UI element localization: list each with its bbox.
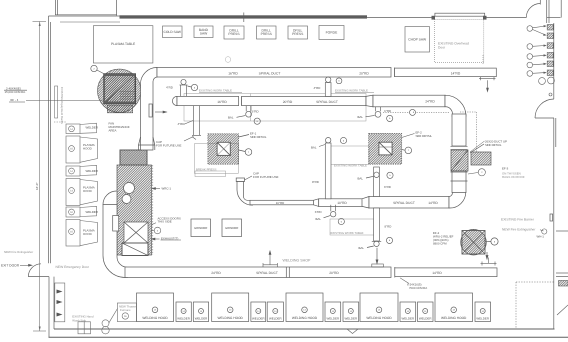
svg-text:4"RD: 4"RD [314,86,321,90]
svg-text:EXISTING WORK TABLE: EXISTING WORK TABLE [331,231,364,235]
svg-text:8800 CFM: 8800 CFM [433,241,447,245]
svg-text:14"RD: 14"RD [432,271,442,275]
svg-text:20"RD: 20"RD [359,71,369,75]
svg-text:WELDING HOOD: WELDING HOOD [142,316,168,320]
svg-text:Door: Door [438,46,446,50]
svg-text:BAL: BAL [358,176,364,180]
svg-text:18'-0": 18'-0" [35,183,39,190]
svg-text:15,000 CFM EA.: 15,000 CFM EA. [5,90,27,94]
svg-text:EF-3: EF-3 [502,166,509,170]
svg-text:SEE DETAIL: SEE DETAIL [416,134,433,138]
svg-text:24"RD: 24"RD [425,100,435,104]
svg-text:EXISTING Equipment Racks: EXISTING Equipment Racks [60,87,64,125]
svg-text:BAL: BAL [316,217,322,221]
svg-text:CHOP SAW: CHOP SAW [408,38,427,42]
svg-text:WELDER: WELDER [252,317,265,321]
svg-text:6"RD: 6"RD [252,110,259,114]
svg-text:SPIRAL DUCT: SPIRAL DUCT [316,100,338,104]
svg-text:BAL: BAL [358,115,364,119]
svg-text:BAL: BAL [359,246,365,250]
svg-text:6"RD: 6"RD [315,210,322,214]
svg-text:WELDER: WELDER [86,210,98,214]
svg-text:WRC-1: WRC-1 [162,187,172,191]
svg-text:SPIRAL DUCT: SPIRAL DUCT [256,271,278,275]
svg-text:NEW Fire Extinguisher: NEW Fire Extinguisher [4,250,33,254]
svg-text:24"RD: 24"RD [211,271,221,275]
svg-text:SPIRAL DUCT: SPIRAL DUCT [393,201,415,205]
svg-text:10"RD: 10"RD [337,201,347,205]
svg-text:PRESS: PRESS [228,32,240,36]
svg-text:NEW Fire Extinguisher: NEW Fire Extinguisher [502,227,536,231]
svg-text:WELDER: WELDER [345,317,358,321]
svg-text:EXISTING Fire Barrier: EXISTING Fire Barrier [501,217,535,221]
svg-text:SEE DETAIL: SEE DETAIL [250,135,267,139]
svg-text:WELDER: WELDER [419,317,432,321]
svg-text:6"RD: 6"RD [384,185,391,189]
svg-text:FOR FUTURE USE: FOR FUTURE USE [253,175,278,179]
svg-text:4"RD: 4"RD [178,122,185,126]
svg-text:FOR FUTURE USE: FOR FUTURE USE [156,144,181,148]
svg-text:GRINDER: GRINDER [225,226,238,230]
svg-text:COLD SAW: COLD SAW [163,30,181,34]
svg-text:SAW: SAW [200,31,208,35]
svg-text:WELDER: WELDER [327,317,340,321]
svg-text:WELDER: WELDER [177,317,190,321]
svg-text:HOOD: HOOD [83,189,92,193]
svg-text:EXISTING WORK TABLE: EXISTING WORK TABLE [334,163,367,167]
svg-text:EXISTING WORK TABLE: EXISTING WORK TABLE [335,89,368,93]
svg-text:GRINDER: GRINDER [194,226,207,230]
svg-text:HOOD: HOOD [83,146,92,150]
svg-text:20"RD: 20"RD [329,271,339,275]
svg-text:WELDER: WELDER [195,317,208,321]
svg-text:THIS SIDE: THIS SIDE [158,220,172,224]
svg-text:8"RD: 8"RD [312,180,319,184]
svg-text:WELDING HOOD: WELDING HOOD [366,316,392,320]
svg-text:WELDER: WELDER [86,169,98,173]
svg-text:EF - 4: EF - 4 [11,98,19,102]
svg-text:EXIT DOOR: EXIT DOOR [1,263,20,267]
svg-text:BAL: BAL [311,145,317,149]
svg-text:WELDER: WELDER [402,317,415,321]
svg-text:PRESS: PRESS [261,32,273,36]
svg-text:PLASMA TABLE: PLASMA TABLE [111,42,136,46]
svg-text:BAL: BAL [228,116,234,120]
svg-text:FORGE: FORGE [326,31,339,35]
svg-text:SPIRAL DUCT: SPIRAL DUCT [259,71,281,75]
svg-text:WH-1: WH-1 [537,235,545,239]
svg-text:6"RD: 6"RD [384,109,391,113]
svg-text:WELDER: WELDER [476,317,489,321]
svg-text:SEE DETAIL: SEE DETAIL [485,143,502,147]
svg-text:WELDER: WELDER [269,317,282,321]
svg-text:HOOD: HOOD [83,232,92,236]
svg-text:BREAK PRESS: BREAK PRESS [196,167,216,171]
svg-text:7000 CFM EA: 7000 CFM EA [409,286,427,290]
svg-text:EXISTING WORK TABLE: EXISTING WORK TABLE [199,89,232,93]
svg-text:14"RD: 14"RD [428,201,438,205]
svg-text:16"RD: 16"RD [276,201,284,205]
svg-text:4"RD: 4"RD [166,86,173,90]
svg-text:16"RD: 16"RD [228,71,238,75]
svg-text:16"RD: 16"RD [217,100,227,104]
svg-text:Wash Sink: Wash Sink [72,319,86,323]
svg-text:RAILS ON ROOF: RAILS ON ROOF [502,175,525,179]
svg-text:WELDER: WELDER [86,126,98,130]
svg-text:NEW Emergency Door: NEW Emergency Door [56,265,90,269]
svg-text:14"RD: 14"RD [451,71,461,75]
svg-text:8"RD: 8"RD [385,224,392,228]
svg-text:EXHAUST(T): EXHAUST(T) [161,236,178,240]
svg-text:WELDING HOOD: WELDING HOOD [218,316,244,320]
svg-text:PRESS: PRESS [292,32,304,36]
svg-text:WELDING HOOD: WELDING HOOD [441,316,467,320]
svg-text:WELDING HOOD: WELDING HOOD [292,316,318,320]
svg-text:WELDING SHOP: WELDING SHOP [283,259,312,263]
svg-text:20"RD: 20"RD [283,100,293,104]
svg-text:Furnace: Furnace [120,308,131,312]
svg-text:AREA: AREA [109,129,117,133]
